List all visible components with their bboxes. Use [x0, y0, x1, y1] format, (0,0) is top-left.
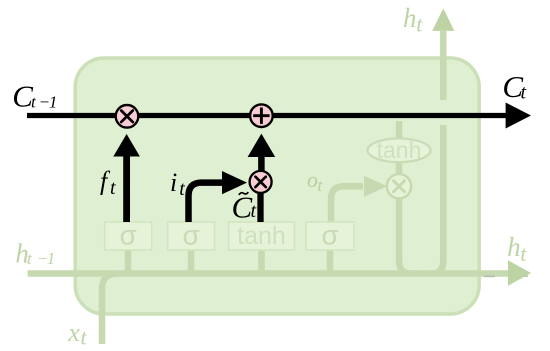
svg-text:h: h — [507, 232, 520, 262]
svg-text:o: o — [307, 167, 318, 192]
svg-text:C: C — [232, 190, 253, 225]
svg-text:t: t — [110, 177, 116, 199]
svg-text:t: t — [521, 82, 527, 104]
svg-text:σ: σ — [321, 220, 338, 251]
svg-text:1: 1 — [47, 249, 56, 268]
svg-text:tanh: tanh — [377, 137, 422, 163]
svg-text:t: t — [416, 12, 423, 37]
svg-text:tanh: tanh — [237, 222, 286, 250]
svg-text:h: h — [403, 3, 417, 33]
svg-text:σ: σ — [182, 220, 199, 251]
svg-text:σ: σ — [120, 220, 137, 251]
svg-text:t: t — [31, 92, 37, 111]
svg-text:t: t — [27, 249, 33, 268]
svg-text:1: 1 — [49, 92, 58, 111]
svg-text:t: t — [179, 178, 185, 200]
svg-text:i: i — [170, 168, 177, 197]
svg-text:t: t — [520, 241, 527, 266]
svg-text:x: x — [67, 318, 80, 347]
svg-text:t: t — [251, 200, 257, 222]
svg-text:t: t — [81, 325, 88, 350]
